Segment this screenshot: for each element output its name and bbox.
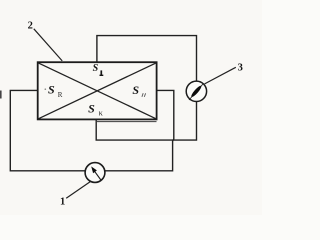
svg-text:κ: κ: [99, 108, 103, 117]
doubled scan line under bridge bottom edge: [97, 121, 157, 123]
svg-text:S: S: [48, 82, 55, 96]
svg-text:3: 3: [238, 62, 243, 73]
gauge label S1 (top arm): [93, 63, 104, 76]
meter 3 (galvanometer) body: [186, 81, 206, 101]
meter 1 (indicator) body: [85, 163, 105, 183]
paper background: [0, 0, 262, 215]
bridge block rectangle (strain-gauge bridge): [38, 62, 157, 119]
gauge label SK (bottom arm): [88, 101, 103, 117]
svg-text:S: S: [88, 101, 95, 115]
gauge label SR (left arm): [48, 82, 63, 99]
wire: meter 3 bottom down, left along bottom, up to bridge bottom node: [96, 101, 196, 140]
wire: bridge top node up, across and down to meter 3: [97, 36, 197, 82]
svg-text:S: S: [132, 83, 139, 97]
callout line for label 3: [205, 67, 236, 84]
wire: bridge left node, left and down to bottom rail: [10, 90, 85, 170]
svg-text:R: R: [58, 91, 63, 99]
wire: bridge right node, right and down (jog over bottom wire) to meter 1: [105, 90, 174, 170]
diagonal wire: top-right to bottom-left: [38, 63, 156, 119]
svg-text:1: 1: [60, 197, 65, 208]
callout line for label 2: [34, 29, 62, 61]
meter 1 needle with arrowhead: [91, 166, 101, 180]
gauge label S∥ (right arm): [132, 83, 145, 97]
callout line for label 1: [66, 182, 90, 199]
svg-text:2: 2: [28, 21, 33, 32]
scan-edge artifact at left margin: [0, 91, 2, 99]
diagonal wire: top-left to bottom-right: [38, 63, 156, 119]
meter 3 needle: [189, 84, 203, 101]
scan speck near SR: [45, 88, 47, 90]
svg-text:S: S: [93, 63, 99, 74]
